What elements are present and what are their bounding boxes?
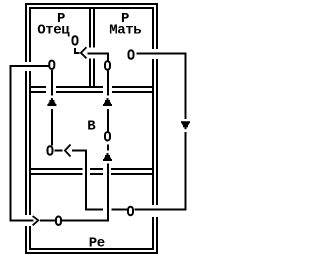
svg-text:Мать: Мать [109,23,141,39]
svg-text:Ре: Ре [89,235,105,251]
svg-text:В: В [87,119,96,135]
svg-text:Отец: Отец [37,23,70,39]
